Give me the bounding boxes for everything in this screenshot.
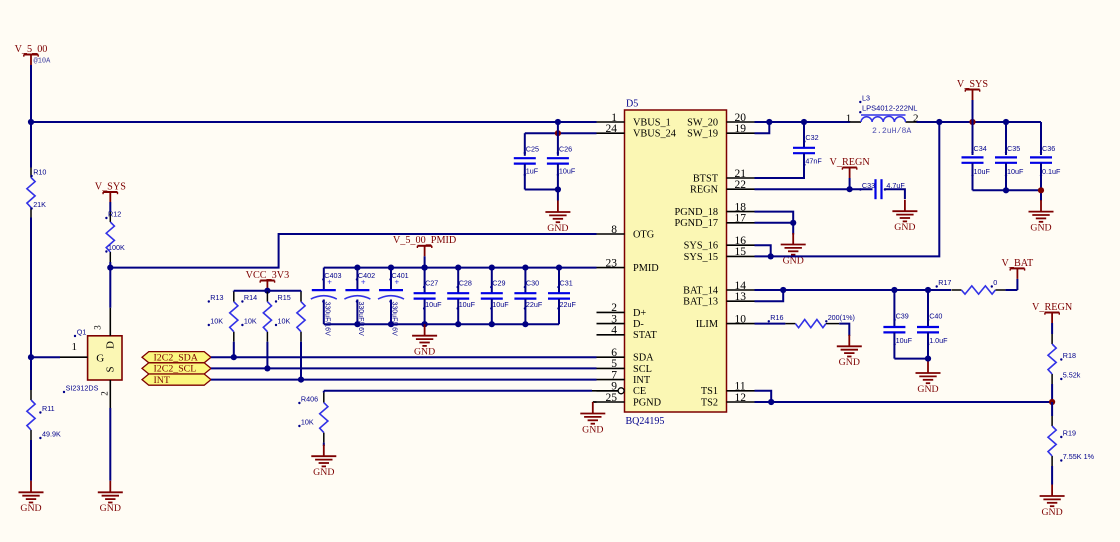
svg-text:V_5_00: V_5_00	[15, 44, 48, 55]
svg-text:R13: R13	[210, 293, 223, 302]
svg-text:R18: R18	[1063, 351, 1076, 360]
svg-text:C32: C32	[805, 133, 818, 142]
svg-text:PMID: PMID	[633, 263, 659, 274]
svg-text:C34: C34	[974, 144, 987, 153]
svg-text:10uF: 10uF	[974, 167, 991, 176]
svg-text:VBUS_24: VBUS_24	[633, 129, 676, 140]
svg-text:R15: R15	[278, 293, 291, 302]
svg-text:VCC_3V3: VCC_3V3	[246, 270, 290, 281]
svg-text:330uF/16V: 330uF/16V	[357, 302, 364, 337]
svg-text:D: D	[105, 341, 117, 349]
svg-text:3: 3	[611, 313, 617, 325]
svg-text:10uF: 10uF	[492, 300, 509, 309]
svg-text:8: 8	[611, 224, 617, 236]
svg-text:V_SYS: V_SYS	[957, 79, 988, 90]
svg-text:+: +	[327, 278, 332, 287]
svg-text:LPS4012-222NL: LPS4012-222NL	[862, 104, 917, 113]
svg-text:GND: GND	[1030, 222, 1051, 233]
svg-text:PGND: PGND	[633, 397, 662, 408]
svg-text:R16: R16	[770, 313, 783, 322]
svg-text:R14: R14	[244, 293, 257, 302]
svg-text:25: 25	[606, 392, 618, 404]
svg-text:1uF: 1uF	[526, 166, 539, 175]
svg-text:7: 7	[611, 369, 617, 381]
svg-text:C31: C31	[560, 279, 573, 288]
svg-text:S: S	[105, 366, 117, 372]
svg-text:1: 1	[72, 341, 78, 353]
svg-text:49.9K: 49.9K	[42, 430, 61, 439]
svg-text:100K: 100K	[108, 243, 125, 252]
svg-text:22: 22	[735, 179, 747, 191]
svg-text:2: 2	[611, 302, 617, 314]
svg-text:1: 1	[846, 113, 852, 125]
svg-text:10uF: 10uF	[425, 300, 442, 309]
svg-text:INT: INT	[154, 375, 170, 386]
svg-text:19: 19	[735, 123, 747, 135]
svg-text:PGND_17: PGND_17	[675, 218, 718, 229]
svg-text:3: 3	[93, 325, 103, 330]
svg-text:D-: D-	[633, 319, 644, 330]
svg-text:BAT_14: BAT_14	[683, 285, 718, 296]
svg-text:10uF: 10uF	[459, 300, 476, 309]
svg-text:SYS_16: SYS_16	[684, 241, 718, 252]
svg-text:L3: L3	[862, 94, 870, 103]
svg-text:C25: C25	[526, 145, 539, 154]
svg-text:SCL: SCL	[633, 364, 652, 375]
svg-text:GND: GND	[100, 503, 121, 514]
svg-text:GND: GND	[1041, 507, 1062, 518]
svg-text:VBUS_1: VBUS_1	[633, 117, 671, 128]
svg-text:GND: GND	[917, 384, 938, 395]
svg-text:24: 24	[606, 123, 618, 135]
svg-text:CE: CE	[633, 386, 646, 397]
svg-text:4: 4	[611, 325, 617, 337]
svg-text:R10: R10	[33, 168, 46, 177]
svg-text:10K: 10K	[244, 317, 257, 326]
svg-text:INT: INT	[633, 375, 651, 386]
svg-text:GND: GND	[894, 222, 915, 233]
svg-text:22uF: 22uF	[560, 300, 577, 309]
svg-text:0.1uF: 0.1uF	[1042, 167, 1061, 176]
svg-text:10: 10	[735, 313, 747, 325]
svg-text:C39: C39	[896, 311, 909, 320]
svg-text:22uF: 22uF	[526, 300, 543, 309]
svg-text:20: 20	[735, 112, 747, 124]
svg-text:R19: R19	[1063, 429, 1076, 438]
svg-text:6: 6	[611, 347, 617, 359]
svg-text:V_5_00_PMID: V_5_00_PMID	[393, 235, 456, 246]
svg-text:TS1: TS1	[701, 386, 718, 397]
svg-text:C35: C35	[1007, 144, 1020, 153]
svg-text:GND: GND	[414, 347, 435, 358]
svg-text:BQ24195: BQ24195	[626, 416, 665, 427]
svg-text:12: 12	[735, 392, 747, 404]
svg-text:V_BAT: V_BAT	[1002, 258, 1034, 269]
svg-text:10K: 10K	[278, 317, 291, 326]
svg-text:4.7uF: 4.7uF	[886, 181, 905, 190]
svg-text:D5: D5	[626, 99, 638, 110]
svg-text:21K: 21K	[33, 200, 46, 209]
svg-text:REGN: REGN	[690, 185, 719, 196]
svg-text:BTST: BTST	[693, 173, 719, 184]
svg-text:17: 17	[735, 213, 747, 225]
svg-text:200(1%): 200(1%)	[828, 313, 855, 322]
svg-text:C36: C36	[1042, 144, 1055, 153]
svg-text:C26: C26	[559, 145, 572, 154]
svg-text:SDA: SDA	[633, 353, 654, 364]
svg-text:D+: D+	[633, 308, 646, 319]
svg-text:C28: C28	[459, 279, 472, 288]
svg-text:I2C2_SCL: I2C2_SCL	[154, 364, 197, 375]
svg-text:15: 15	[735, 246, 747, 258]
svg-text:10uF: 10uF	[559, 166, 576, 175]
svg-text:1.0uF: 1.0uF	[929, 336, 948, 345]
svg-text:21: 21	[735, 168, 747, 180]
svg-text:2.2uH/8A: 2.2uH/8A	[872, 126, 911, 136]
svg-text:OTG: OTG	[633, 229, 655, 240]
svg-text:+: +	[361, 278, 366, 287]
svg-text:SI2312DS: SI2312DS	[66, 384, 99, 393]
svg-text:ILIM: ILIM	[696, 319, 718, 330]
svg-text:11: 11	[735, 381, 746, 393]
svg-text:C30: C30	[526, 279, 539, 288]
svg-text:I2C2_SDA: I2C2_SDA	[154, 353, 199, 364]
svg-text:V_SYS: V_SYS	[95, 181, 126, 192]
svg-text:GND: GND	[839, 357, 860, 368]
svg-text:R12: R12	[108, 210, 121, 219]
svg-text:V_REGN: V_REGN	[830, 157, 871, 168]
svg-text:5.52k: 5.52k	[1063, 371, 1081, 380]
svg-text:10K: 10K	[301, 418, 314, 427]
svg-text:@10A: @10A	[34, 58, 52, 66]
svg-text:GND: GND	[313, 467, 334, 478]
svg-text:C40: C40	[929, 311, 942, 320]
svg-text:C27: C27	[425, 279, 438, 288]
svg-text:GND: GND	[20, 503, 41, 514]
svg-text:10K: 10K	[210, 317, 223, 326]
svg-text:2: 2	[100, 391, 110, 396]
svg-text:16: 16	[735, 235, 747, 247]
svg-text:TS2: TS2	[701, 397, 718, 408]
svg-text:0: 0	[993, 278, 997, 287]
svg-text:18: 18	[735, 201, 747, 213]
svg-text:BAT_13: BAT_13	[683, 297, 718, 308]
svg-text:V_REGN: V_REGN	[1032, 302, 1073, 313]
svg-text:C29: C29	[492, 279, 505, 288]
svg-text:10uF: 10uF	[896, 336, 913, 345]
svg-text:GND: GND	[582, 424, 603, 435]
svg-text:SW_19: SW_19	[687, 129, 718, 140]
svg-text:Q1: Q1	[77, 328, 87, 337]
svg-text:R406: R406	[301, 395, 318, 404]
svg-text:23: 23	[606, 257, 618, 269]
svg-text:C33: C33	[862, 181, 875, 190]
svg-text:R17: R17	[938, 278, 951, 287]
svg-text:7.55K 1%: 7.55K 1%	[1063, 452, 1095, 461]
svg-text:R11: R11	[42, 404, 55, 413]
svg-text:GND: GND	[547, 223, 568, 234]
svg-text:330uF/16V: 330uF/16V	[323, 302, 330, 337]
svg-text:14: 14	[735, 280, 747, 292]
svg-text:SYS_15: SYS_15	[684, 252, 718, 263]
svg-text:+: +	[395, 278, 400, 287]
svg-text:SW_20: SW_20	[687, 117, 718, 128]
svg-text:PGND_18: PGND_18	[675, 207, 718, 218]
svg-text:330uF/16V: 330uF/16V	[391, 302, 398, 337]
svg-text:STAT: STAT	[633, 330, 657, 341]
svg-text:1: 1	[611, 112, 617, 124]
svg-text:13: 13	[735, 291, 747, 303]
svg-text:G: G	[96, 353, 104, 365]
svg-text:10uF: 10uF	[1007, 167, 1024, 176]
svg-text:47nF: 47nF	[805, 156, 822, 165]
svg-text:5: 5	[611, 358, 617, 370]
